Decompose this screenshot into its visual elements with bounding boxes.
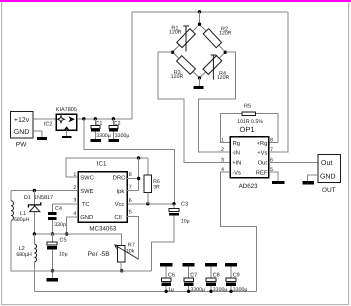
svg-text:SWE: SWE: [80, 188, 93, 195]
svg-text:2: 2: [221, 147, 224, 153]
svg-text:CII: CII: [114, 214, 122, 221]
svg-text:3R: 3R: [153, 184, 160, 190]
svg-text:Out: Out: [258, 160, 268, 167]
ground IC2: [66, 130, 68, 136]
inductor L1 680uH: [11, 191, 30, 271]
capacitor C1: [91, 119, 111, 139]
wire rail B: [11, 270, 152, 272]
capacitor C7 3300u: [183, 263, 205, 293]
svg-text:KIA7805: KIA7805: [56, 107, 77, 113]
ground bar REF: [272, 181, 284, 184]
node 5V-A: [82, 117, 85, 120]
node C5 rail B: [51, 269, 54, 272]
svg-text:SWC: SWC: [80, 174, 94, 181]
svg-text:C2: C2: [114, 121, 121, 127]
svg-text:+IN: +IN: [232, 161, 241, 167]
resistor R1: [169, 25, 195, 51]
node rail A left: [33, 232, 36, 235]
capacitor C9 3300u: [225, 263, 247, 293]
svg-text:IC2: IC2: [44, 121, 53, 127]
svg-text:TC: TC: [82, 201, 90, 208]
svg-text:AD623: AD623: [239, 183, 258, 190]
svg-text:3300µ: 3300µ: [190, 287, 205, 293]
node D1 top: [33, 189, 36, 192]
node bridge left: [171, 51, 174, 54]
svg-text:10µ: 10µ: [181, 219, 190, 225]
node bridge top feed: [198, 10, 201, 13]
node bridge top: [198, 23, 201, 26]
node GND rail A: [65, 232, 68, 235]
wire +12v PW to IC2: [33, 118, 57, 120]
ground bar C1: [90, 139, 101, 142]
svg-text:C4: C4: [55, 206, 62, 212]
svg-text:REF: REF: [256, 170, 268, 176]
resistor R6: [144, 158, 160, 204]
resistor R2: [203, 27, 232, 48]
svg-text:330p: 330p: [54, 222, 66, 228]
wire CII: [127, 216, 139, 259]
svg-text:120R: 120R: [219, 31, 232, 37]
node C7 rail: [187, 290, 190, 293]
node C9 rail: [229, 290, 232, 293]
connector PW box: [11, 111, 33, 148]
svg-text:C9: C9: [233, 273, 240, 279]
svg-text:+Rg: +Rg: [257, 141, 268, 147]
node C3 top: [172, 202, 175, 205]
svg-text:3: 3: [221, 158, 224, 164]
wire bridge right to -IN: [199, 52, 236, 152]
wire bridge left to +IN: [158, 52, 230, 162]
ground bar C5: [47, 278, 58, 282]
frame top magenta: [0, 0, 351, 2]
svg-text:120R: 120R: [217, 75, 230, 81]
ground bridge: [199, 78, 201, 86]
capacitor C5 10u: [47, 234, 68, 278]
svg-text:OUT: OUT: [322, 187, 336, 194]
wire -Vs path: [221, 172, 257, 291]
capacitor C6 1u: [160, 263, 175, 293]
wire +5V rail: [77, 118, 132, 120]
wire -5B bottom rail: [34, 290, 256, 292]
svg-text:8: 8: [129, 172, 132, 178]
svg-text:DRC: DRC: [113, 174, 126, 181]
ground bar PW: [37, 137, 47, 140]
svg-text:MC34063: MC34063: [89, 225, 116, 232]
svg-text:120R: 120R: [169, 30, 182, 36]
svg-text:D1: D1: [24, 195, 31, 201]
diode D1 1N5817: [24, 191, 53, 235]
node C1 top: [94, 117, 97, 120]
node DRC stub: [137, 177, 140, 180]
svg-text:3300µ: 3300µ: [233, 287, 248, 293]
node C8 rail: [209, 290, 212, 293]
svg-text:3: 3: [73, 197, 76, 203]
regulator IC2 KIA7805: [56, 107, 77, 130]
resistor R5: [237, 103, 263, 124]
svg-text:IC1: IC1: [97, 160, 107, 167]
svg-text:3300µ: 3300µ: [115, 133, 130, 139]
svg-text:-Vs: -Vs: [232, 170, 241, 176]
connector OUT box: [318, 155, 341, 195]
node C6 rail: [165, 290, 168, 293]
wire C3 to rail B: [152, 242, 175, 271]
svg-text:C6: C6: [168, 273, 175, 279]
wire SWE: [11, 190, 78, 192]
capacitor C4 330p: [48, 204, 66, 234]
node C4/C5 rail A: [51, 232, 54, 235]
svg-text:1N5817: 1N5817: [34, 195, 53, 201]
svg-text:8: 8: [270, 138, 273, 144]
wire SWC top loop: [66, 158, 148, 177]
wire REF: [269, 172, 278, 181]
wire PW GND: [33, 131, 42, 137]
wire L2 to rail: [33, 234, 35, 244]
svg-text:GND: GND: [320, 173, 336, 180]
capacitor C2: [109, 119, 129, 139]
svg-text:6: 6: [129, 198, 132, 204]
wire TC: [53, 203, 79, 205]
svg-text:L2: L2: [19, 246, 25, 252]
node R6 bottom: [146, 202, 149, 205]
svg-text:Ipk: Ipk: [117, 188, 125, 195]
svg-text:+12v: +12v: [14, 117, 30, 124]
svg-text:101R 0.5%: 101R 0.5%: [237, 119, 263, 125]
svg-text:-IN: -IN: [232, 150, 240, 156]
svg-text:C8: C8: [213, 273, 220, 279]
svg-text:1µ: 1µ: [168, 287, 174, 293]
frame bottom border: [1, 304, 349, 305]
svg-text:5: 5: [129, 209, 132, 215]
frame right border: [348, 2, 349, 305]
svg-text:GND: GND: [14, 129, 30, 136]
wire rail A: [34, 234, 121, 245]
svg-text:C1: C1: [95, 121, 102, 127]
wire Rg loop: [220, 114, 242, 143]
op-amp OP1: [221, 125, 273, 190]
svg-text:7: 7: [129, 185, 132, 191]
node C2 top: [112, 117, 115, 120]
svg-text:+Vs: +Vs: [257, 150, 267, 156]
svg-text:680µH: 680µH: [16, 252, 32, 258]
wire +Vs riser: [269, 12, 288, 152]
svg-text:PW: PW: [16, 141, 27, 148]
svg-text:Rg: Rg: [233, 141, 240, 147]
svg-text:C5: C5: [60, 237, 67, 243]
svg-text:C3: C3: [181, 201, 188, 207]
svg-text:120R: 120R: [171, 74, 184, 80]
capacitor C8 3300u: [205, 263, 227, 293]
resistor R4: [203, 55, 229, 81]
svg-text:3300µ: 3300µ: [96, 133, 111, 139]
trimmer R7 10k: [88, 243, 139, 271]
frame left border: [1, 2, 2, 305]
ground bar OUT: [303, 181, 315, 184]
converter IC1 MC34063: [73, 160, 131, 232]
svg-text:10k: 10k: [126, 248, 135, 254]
svg-text:10µ: 10µ: [59, 252, 68, 258]
wheatstone bridge wires: [173, 24, 200, 52]
wire OUT GND: [308, 175, 319, 181]
wire Vcc: [127, 203, 174, 205]
svg-text:Vcc: Vcc: [115, 202, 125, 208]
svg-text:680µH: 680µH: [14, 217, 30, 223]
node bridge right: [224, 51, 227, 54]
inductor L2 680uH: [16, 244, 36, 262]
svg-text:C7: C7: [190, 273, 197, 279]
svg-text:Out: Out: [321, 160, 332, 167]
wire GND pin4: [67, 217, 78, 234]
wire Out: [269, 161, 318, 163]
svg-text:1: 1: [221, 138, 224, 144]
resistor R3: [171, 56, 196, 80]
capacitor C3: [169, 201, 189, 242]
svg-text:3300µ: 3300µ: [213, 287, 228, 293]
wire bridge apex stub: [199, 12, 201, 24]
svg-text:Per -5B: Per -5B: [88, 251, 110, 258]
svg-text:R5: R5: [244, 103, 251, 109]
wire 5V riser to bridge: [132, 12, 288, 119]
node bridge bottom: [198, 76, 201, 79]
ground bar C2: [108, 139, 119, 142]
svg-text:GND: GND: [80, 214, 93, 221]
svg-text:OP1: OP1: [240, 125, 255, 134]
svg-text:4: 4: [73, 211, 76, 217]
wire DRC stub: [127, 178, 139, 180]
wire DRC/Ipk riser: [127, 158, 139, 191]
node R7 rail B: [120, 269, 123, 272]
wire 5V feed to IC1: [84, 119, 175, 204]
node DRC riser: [137, 156, 140, 159]
